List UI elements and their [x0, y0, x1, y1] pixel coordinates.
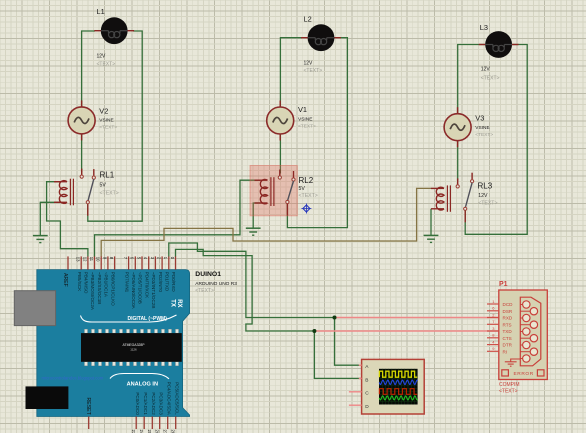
wire: L2 left terminal to V1 top	[280, 38, 302, 107]
sine source V3	[457, 107, 459, 116]
svg-text:PD2/INT0: PD2/INT0	[158, 272, 163, 293]
svg-text:11: 11	[89, 257, 94, 262]
Arduino analog pin stubs, numbers and labels	[135, 417, 137, 430]
ground (RL1 coil)	[33, 235, 48, 237]
wire: RL1 coil bottom to ground	[40, 202, 60, 235]
wire: L1 left terminal to V2 top	[82, 31, 95, 107]
svg-text:V2: V2	[99, 107, 108, 116]
svg-text:~PD6/AIN0/OC0A: ~PD6/AIN0/OC0A	[131, 272, 136, 310]
ground symbol inside P1	[511, 359, 521, 362]
sine source V1	[279, 101, 281, 110]
svg-text:COMPIM: COMPIM	[499, 382, 520, 388]
svg-text:13: 13	[76, 257, 81, 262]
svg-text:PC0/ADC0: PC0/ADC0	[135, 392, 140, 415]
lamp L2	[301, 37, 310, 39]
waveform channel C (red square)	[379, 389, 417, 395]
svg-text:~PD3/INT1/OC2B: ~PD3/INT1/OC2B	[151, 272, 156, 309]
svg-text:PC1/ADC1: PC1/ADC1	[143, 392, 148, 415]
serial connector P1 (COMPIM)	[499, 290, 548, 380]
wire: L3 left terminal to V3 top	[458, 45, 492, 115]
svg-text:<TEXT>: <TEXT>	[475, 132, 493, 138]
svg-text:PC3/ADC3: PC3/ADC3	[158, 392, 163, 415]
svg-text:PD4/T0/XCK: PD4/T0/XCK	[144, 272, 149, 299]
svg-text:~PB1/OC1A: ~PB1/OC1A	[104, 272, 109, 298]
svg-text:DUINO1: DUINO1	[195, 271, 221, 278]
waveform channel B (blue sine)	[379, 380, 418, 384]
svg-text:PB5/SCK: PB5/SCK	[77, 272, 82, 292]
svg-text:1126: 1126	[130, 347, 137, 351]
wire: RL2 coil bottom to ground	[253, 203, 260, 228]
RESET pin stub	[88, 417, 90, 430]
svg-text:P1: P1	[499, 281, 508, 288]
DIGITAL (~PWM) label	[81, 315, 177, 322]
svg-text:5V: 5V	[299, 186, 306, 192]
svg-text:PB4/MISO: PB4/MISO	[84, 272, 89, 294]
lamp L3	[479, 44, 488, 46]
svg-text:VSINE: VSINE	[99, 117, 113, 123]
svg-text:TXD: TXD	[503, 329, 513, 334]
relay RL2	[260, 179, 267, 203]
P1 pin stubs, numbers, labels	[487, 303, 499, 305]
wire: RL2 coil top to Arduino pin 11	[95, 180, 261, 256]
ERROR indicator row	[502, 370, 509, 376]
svg-text:DSR: DSR	[503, 309, 513, 314]
svg-text:V3: V3	[475, 114, 484, 123]
svg-text:10: 10	[96, 257, 101, 262]
svg-text:24: 24	[139, 430, 144, 433]
svg-text:27: 27	[162, 430, 167, 433]
Arduino Uno board DUINO1	[37, 270, 190, 417]
svg-text:RI: RI	[503, 349, 508, 354]
svg-text:RESET: RESET	[85, 398, 91, 416]
svg-text:12: 12	[82, 257, 87, 262]
svg-text:RTS: RTS	[503, 322, 512, 327]
relay RL3	[436, 187, 444, 210]
svg-text:RL2: RL2	[299, 176, 314, 185]
svg-text:RL3: RL3	[478, 182, 493, 191]
svg-text:RX: RX	[176, 299, 182, 307]
USB connector	[14, 291, 55, 326]
svg-text:<TEXT>: <TEXT>	[195, 288, 214, 294]
wire: L3 right terminal down to RL3 common contact	[465, 45, 527, 235]
svg-text:PC5/ADC5/SCL: PC5/ADC5/SCL	[174, 382, 179, 415]
svg-text:~PB3/MOSI/OC2A: ~PB3/MOSI/OC2A	[90, 272, 95, 311]
svg-text:D: D	[365, 404, 369, 410]
junction node on TXD net	[312, 329, 316, 333]
wire: V2 bottom to RL1 left contact	[81, 134, 83, 172]
svg-text:C: C	[365, 390, 369, 396]
wire: RL3 coil bottom to ground	[430, 209, 432, 236]
svg-text:<TEXT>: <TEXT>	[298, 124, 316, 130]
wire: RXD wire to P1 (salmon)	[335, 317, 499, 319]
svg-text:VSINE: VSINE	[298, 117, 312, 123]
svg-text:25: 25	[147, 430, 152, 433]
svg-text:ARDUINO UNO R3: ARDUINO UNO R3	[195, 281, 237, 287]
svg-text:PC2/ADC2: PC2/ADC2	[151, 392, 156, 415]
svg-text:RXD: RXD	[503, 316, 513, 321]
svg-text:ANALOG IN: ANALOG IN	[127, 382, 158, 388]
svg-text:VSINE: VSINE	[475, 125, 489, 131]
Arduino digital pin stubs, numbers and labels	[67, 256, 69, 269]
svg-text:DCD: DCD	[503, 302, 514, 307]
svg-text:L1: L1	[97, 7, 105, 16]
svg-text:PD7/AIN1: PD7/AIN1	[124, 272, 129, 293]
svg-text:12V: 12V	[304, 61, 314, 67]
oscilloscope pin stubs	[359, 364, 362, 366]
svg-text:<TEXT>: <TEXT>	[304, 68, 323, 74]
ground (RL3 coil)	[424, 234, 439, 236]
selection highlight over RL2	[250, 166, 297, 216]
svg-text:DIGITAL (~PWM): DIGITAL (~PWM)	[127, 316, 167, 322]
wire: RL1 coil top to Arduino pin 12	[47, 182, 88, 257]
lamp L1	[94, 30, 103, 32]
power jack	[26, 386, 69, 409]
svg-text:<TEXT>: <TEXT>	[499, 388, 518, 394]
sine source V2	[81, 100, 83, 109]
svg-text:V1: V1	[298, 105, 307, 114]
ATMEGA328P IC	[85, 329, 88, 333]
DB9 shell	[520, 297, 541, 366]
waveform channel D (green sine)	[379, 396, 418, 400]
svg-text:<TEXT>: <TEXT>	[99, 124, 117, 130]
svg-text:microcontrolandos.blogspot.com: microcontrolandos.blogspot.com	[42, 376, 104, 381]
svg-text:~PB2/SS/OC1B: ~PB2/SS/OC1B	[97, 272, 102, 305]
svg-text:~PD5/T1/OC0B: ~PD5/T1/OC0B	[138, 272, 143, 304]
svg-text:<TEXT>: <TEXT>	[100, 191, 119, 197]
svg-text:26: 26	[154, 430, 159, 433]
svg-text:12V: 12V	[478, 193, 488, 199]
wire: junction to oscilloscope channel A	[335, 318, 362, 366]
ANALOG IN label	[110, 374, 169, 379]
wire: L2 right terminal down to RL2 common contact	[287, 38, 347, 228]
relay RL1	[59, 181, 67, 204]
svg-text:PB0/ICP1/CLKO: PB0/ICP1/CLKO	[110, 272, 115, 306]
svg-text:12V: 12V	[481, 67, 491, 73]
svg-text:28: 28	[170, 430, 175, 433]
wire: RL3 coil top to Arduino pin 10 (tan net)	[101, 188, 431, 256]
wire: junction to oscilloscope channel B	[314, 331, 361, 378]
svg-text:CTS: CTS	[503, 336, 512, 341]
svg-text:12V: 12V	[97, 54, 107, 60]
blue origin marker near RL2	[303, 205, 310, 212]
svg-text:PC4/ADC4/SDA: PC4/ADC4/SDA	[166, 382, 171, 416]
svg-text:L2: L2	[304, 15, 312, 24]
oscilloscope screen	[379, 369, 418, 405]
waveform channel A (yellow square)	[379, 371, 417, 377]
svg-text:AREF: AREF	[62, 273, 68, 287]
ground (RL2 coil)	[246, 227, 261, 229]
svg-text:5V: 5V	[100, 183, 107, 189]
svg-text:PD0/RXD: PD0/RXD	[171, 272, 176, 293]
svg-text:<TEXT>: <TEXT>	[478, 201, 497, 207]
svg-text:ERROR: ERROR	[514, 371, 534, 377]
wire: TXD wire to P1 (salmon)	[314, 330, 498, 332]
svg-text:<TEXT>: <TEXT>	[299, 193, 318, 199]
svg-text:TX: TX	[170, 299, 176, 307]
svg-text:<TEXT>: <TEXT>	[97, 61, 116, 67]
svg-text:L3: L3	[480, 23, 488, 32]
junction node on RXD net	[333, 316, 337, 320]
svg-text:RL1: RL1	[100, 171, 115, 180]
wire: Arduino RX pin 0 to P1 TXD net	[176, 249, 315, 331]
wire: V3 bottom to RL3 left contact	[457, 141, 459, 181]
svg-text:23: 23	[131, 430, 136, 433]
wire: L1 right terminal down to RL1 common contact	[88, 31, 142, 221]
oscilloscope instrument	[362, 359, 425, 414]
wire: Arduino TX pin 1 to P1 RXD net	[169, 243, 335, 318]
svg-text:DTR: DTR	[503, 343, 513, 348]
DB9 pin holes	[520, 304, 526, 306]
wire: V1 bottom to RL2 left contact	[279, 134, 281, 174]
svg-text:B: B	[365, 377, 368, 383]
svg-text:<TEXT>: <TEXT>	[481, 76, 500, 82]
svg-text:PD1/TXD: PD1/TXD	[165, 272, 170, 292]
